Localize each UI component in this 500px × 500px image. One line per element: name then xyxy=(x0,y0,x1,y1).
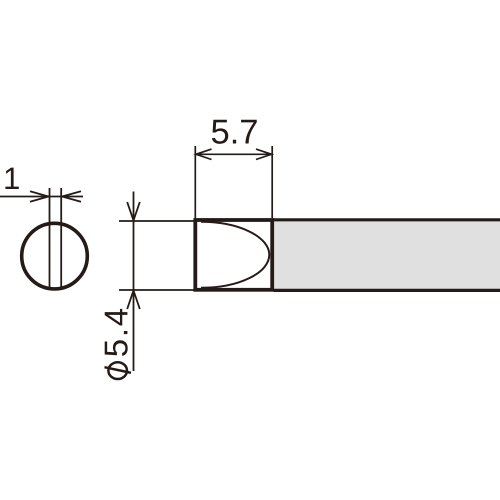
dim phi5.4: top extension line xyxy=(119,220,194,222)
dim 1: label "1" xyxy=(5,168,18,189)
shaft bottom outline xyxy=(274,289,500,292)
dim phi5.4: bottom arrowhead (points up, tip at bottom ext line) xyxy=(127,291,140,310)
dim phi5.4: dimension line xyxy=(133,192,135,372)
dim phi5.4: label "5.4" (rotated) xyxy=(105,309,128,356)
dim 5.7: left arrowhead (points left) xyxy=(196,149,212,159)
chisel flat right line xyxy=(60,188,62,288)
dim 5.7: right extension line xyxy=(271,146,273,218)
dim phi5.4: phi symbol circle xyxy=(108,362,127,379)
dim 1: right arrowhead (points left, tip at right flat line) xyxy=(62,191,81,202)
dim phi5.4: phi symbol slanted bar xyxy=(105,367,132,373)
chisel flat left line xyxy=(49,188,51,288)
dim 1: left arrowhead (points right, tip at left flat line) xyxy=(30,191,49,202)
shaft body (gray) xyxy=(274,221,500,289)
dim 5.7: left extension line xyxy=(194,146,196,218)
dim phi5.4: bottom extension line xyxy=(119,289,194,291)
dim 5.7: label "5.7" xyxy=(212,120,257,144)
dim phi5.4: top arrowhead (points down, tip at top ext line) xyxy=(127,202,140,221)
chisel cut curve (half ellipse) xyxy=(201,222,269,288)
shaft top outline xyxy=(274,218,500,221)
dim 5.7: dimension line xyxy=(195,153,272,155)
tip body rectangle (side view) xyxy=(195,220,272,290)
dim 5.7: right arrowhead (points right) xyxy=(256,149,272,159)
cross-section circle xyxy=(22,223,88,289)
dim 1: dimension line xyxy=(0,196,83,198)
